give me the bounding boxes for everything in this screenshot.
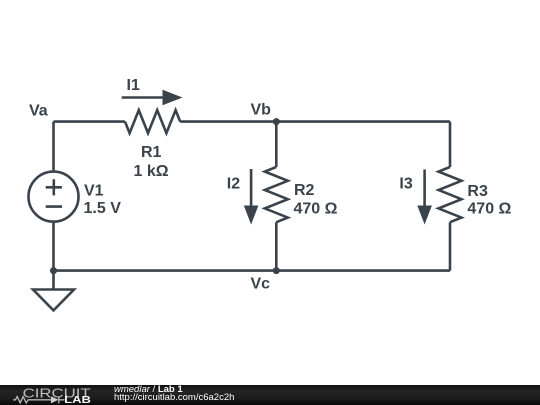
svg-text:R1: R1: [141, 144, 162, 161]
svg-text:I1: I1: [127, 77, 140, 94]
current arrow I2 head: [244, 206, 259, 225]
svg-text:I2: I2: [227, 176, 240, 193]
V1 plus sign: [46, 179, 62, 195]
junction node Vc: [273, 267, 280, 274]
wire Vb down to R2: [275, 122, 278, 167]
caption url: [114, 393, 234, 402]
junction node at ground rail: [50, 267, 57, 274]
svg-text:Vb: Vb: [251, 102, 272, 119]
ground: [33, 290, 74, 311]
wire R2 to bottom rail: [275, 222, 278, 270]
svg-text:V1: V1: [84, 182, 104, 199]
current arrow I3 line: [423, 170, 426, 207]
svg-text:LAB: LAB: [64, 394, 91, 405]
svg-text:1.5 V: 1.5 V: [84, 200, 122, 217]
wire V1 bottom to ground node: [52, 222, 55, 290]
wire R3 to bottom-right corner: [449, 222, 452, 270]
voltage source V1 circle: [29, 172, 79, 222]
svg-text:470 Ω: 470 Ω: [294, 201, 338, 218]
current arrow I1 line: [122, 96, 164, 99]
CircuitLab logo: [0, 385, 110, 405]
svg-text:Va: Va: [29, 102, 48, 119]
resistor R1: [125, 110, 180, 133]
current arrow I2 line: [250, 169, 253, 207]
svg-text:R3: R3: [467, 183, 488, 200]
resistor R2: [265, 167, 288, 222]
current arrow I1 head: [163, 90, 183, 105]
caption author / title: [114, 385, 183, 394]
svg-text:Vc: Vc: [251, 276, 271, 293]
svg-text:470 Ω: 470 Ω: [467, 201, 511, 218]
V1 minus sign: [46, 205, 62, 208]
wire R1 to top-right corner: [180, 120, 450, 123]
current arrow I3 head: [417, 206, 432, 225]
wire Va down to V1 top: [52, 122, 55, 172]
svg-text:R2: R2: [294, 182, 315, 199]
svg-text:I3: I3: [399, 176, 412, 193]
wire bottom rail Vc: [54, 269, 451, 272]
junction node Vb: [273, 118, 280, 125]
wire top-right corner down to R3: [449, 122, 452, 167]
resistor R3: [439, 167, 462, 222]
footer bar: [0, 385, 540, 405]
svg-text:1 kΩ: 1 kΩ: [134, 163, 169, 180]
wire Va to R1 (top left horizontal): [54, 120, 126, 123]
